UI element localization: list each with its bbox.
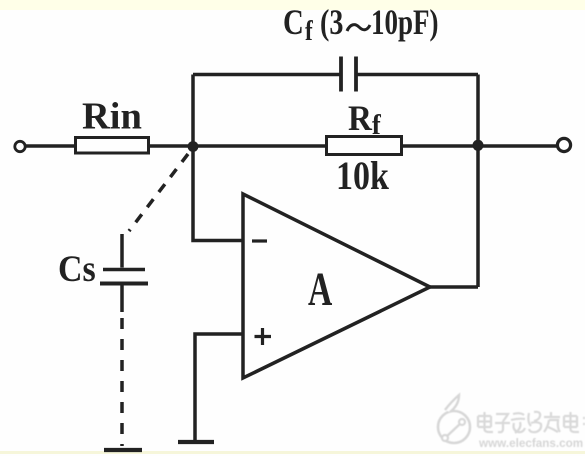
svg-text:Rin: Rin	[82, 96, 142, 138]
svg-text:f: f	[305, 15, 313, 47]
svg-text:www.elecfans.com: www.elecfans.com	[478, 437, 583, 450]
svg-text:10pF): 10pF)	[371, 2, 438, 42]
svg-text:10k: 10k	[336, 155, 389, 199]
svg-text:Cs: Cs	[58, 249, 96, 289]
svg-text:(3: (3	[320, 2, 343, 42]
svg-text:A: A	[308, 262, 332, 315]
svg-text:C: C	[283, 3, 304, 43]
svg-text:Rf: Rf	[348, 99, 381, 142]
